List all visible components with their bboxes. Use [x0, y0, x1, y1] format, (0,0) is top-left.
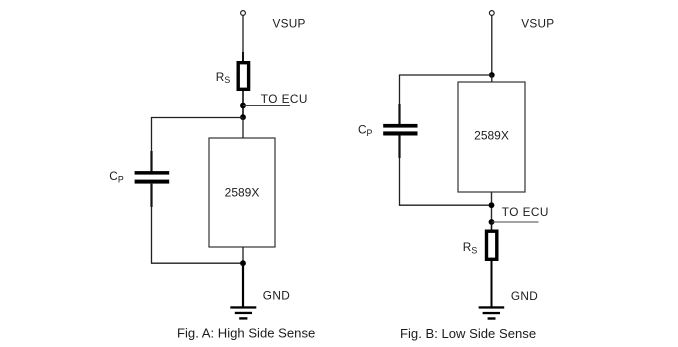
capacitor C_P bottom plate (Fig A) [135, 180, 170, 184]
wire capacitor to bottom node (Fig A) [152, 206, 244, 263]
svg-text:TO ECU: TO ECU [261, 92, 308, 106]
wire lead out of capacitor (Fig B) [398, 136, 400, 159]
svg-text:GND: GND [511, 289, 538, 303]
svg-text:2589X: 2589X [474, 128, 509, 142]
capacitor C_P bottom plate (Fig B) [383, 131, 417, 135]
wire resistor to ground (Fig B) [491, 261, 493, 307]
junction dot top node (Fig B) [489, 72, 495, 78]
terminal VSUP (Fig A) [241, 11, 246, 16]
IC box 2589X (Fig B) [458, 82, 525, 192]
wire node to capacitor C_P (Fig A) [152, 118, 244, 172]
wire top node to IC top (Fig B) [491, 75, 493, 82]
svg-text:Fig. A: High Side Sense: Fig. A: High Side Sense [177, 326, 315, 341]
terminal VSUP (Fig B) [489, 11, 494, 16]
capacitor C_P top plate (Fig A) [135, 171, 170, 175]
wire ground stem (Fig A) [242, 263, 244, 306]
wire IC bottom to ground node (Fig A) [242, 247, 244, 263]
junction dot TO ECU upper node (Fig B) [489, 202, 495, 208]
wire lead into capacitor (Fig B) [398, 104, 400, 124]
svg-text:GND: GND [263, 289, 290, 303]
wire VSUP to resistor R_S (Fig A) [242, 16, 244, 52]
wire VSUP to top node (Fig B) [491, 16, 493, 75]
IC box 2589X (Fig A) [209, 138, 275, 247]
wire lead out of capacitor (Fig A) [150, 184, 152, 207]
junction dot capacitor branch (Fig A) [240, 114, 246, 120]
svg-text:TO ECU: TO ECU [502, 205, 549, 219]
ground symbol (Fig B) [479, 306, 505, 319]
svg-text:VSUP: VSUP [273, 17, 306, 31]
wire IC bottom to TO ECU node (Fig B) [491, 192, 493, 222]
junction dot TO ECU node (Fig A) [240, 103, 246, 109]
wire TO ECU stub (Fig A) [243, 105, 290, 107]
junction dot ground node (Fig A) [240, 260, 246, 266]
wire node to IC top (Fig A) [242, 118, 244, 139]
wire top node to capacitor C_P (Fig B) [400, 75, 492, 124]
resistor R_S (Fig A) [238, 63, 248, 90]
wire resistor to node (Fig A) [242, 91, 244, 118]
wire capacitor to bottom node (Fig B) [400, 157, 492, 205]
svg-text:2589X: 2589X [225, 185, 260, 199]
wire TO ECU stub (Fig B) [492, 221, 539, 223]
resistor R_S (Fig B) [487, 231, 497, 259]
capacitor C_P top plate (Fig B) [383, 124, 417, 128]
ground symbol (Fig A) [230, 306, 256, 319]
svg-text:Fig. B: Low Side Sense: Fig. B: Low Side Sense [400, 326, 536, 341]
wire node to resistor R_S (Fig B) [491, 222, 493, 231]
svg-text:VSUP: VSUP [521, 17, 554, 31]
wire lead into resistor (Fig A) [242, 52, 244, 62]
junction dot TO ECU lower node (Fig B) [489, 219, 495, 225]
wire lead into capacitor (Fig A) [150, 151, 152, 172]
